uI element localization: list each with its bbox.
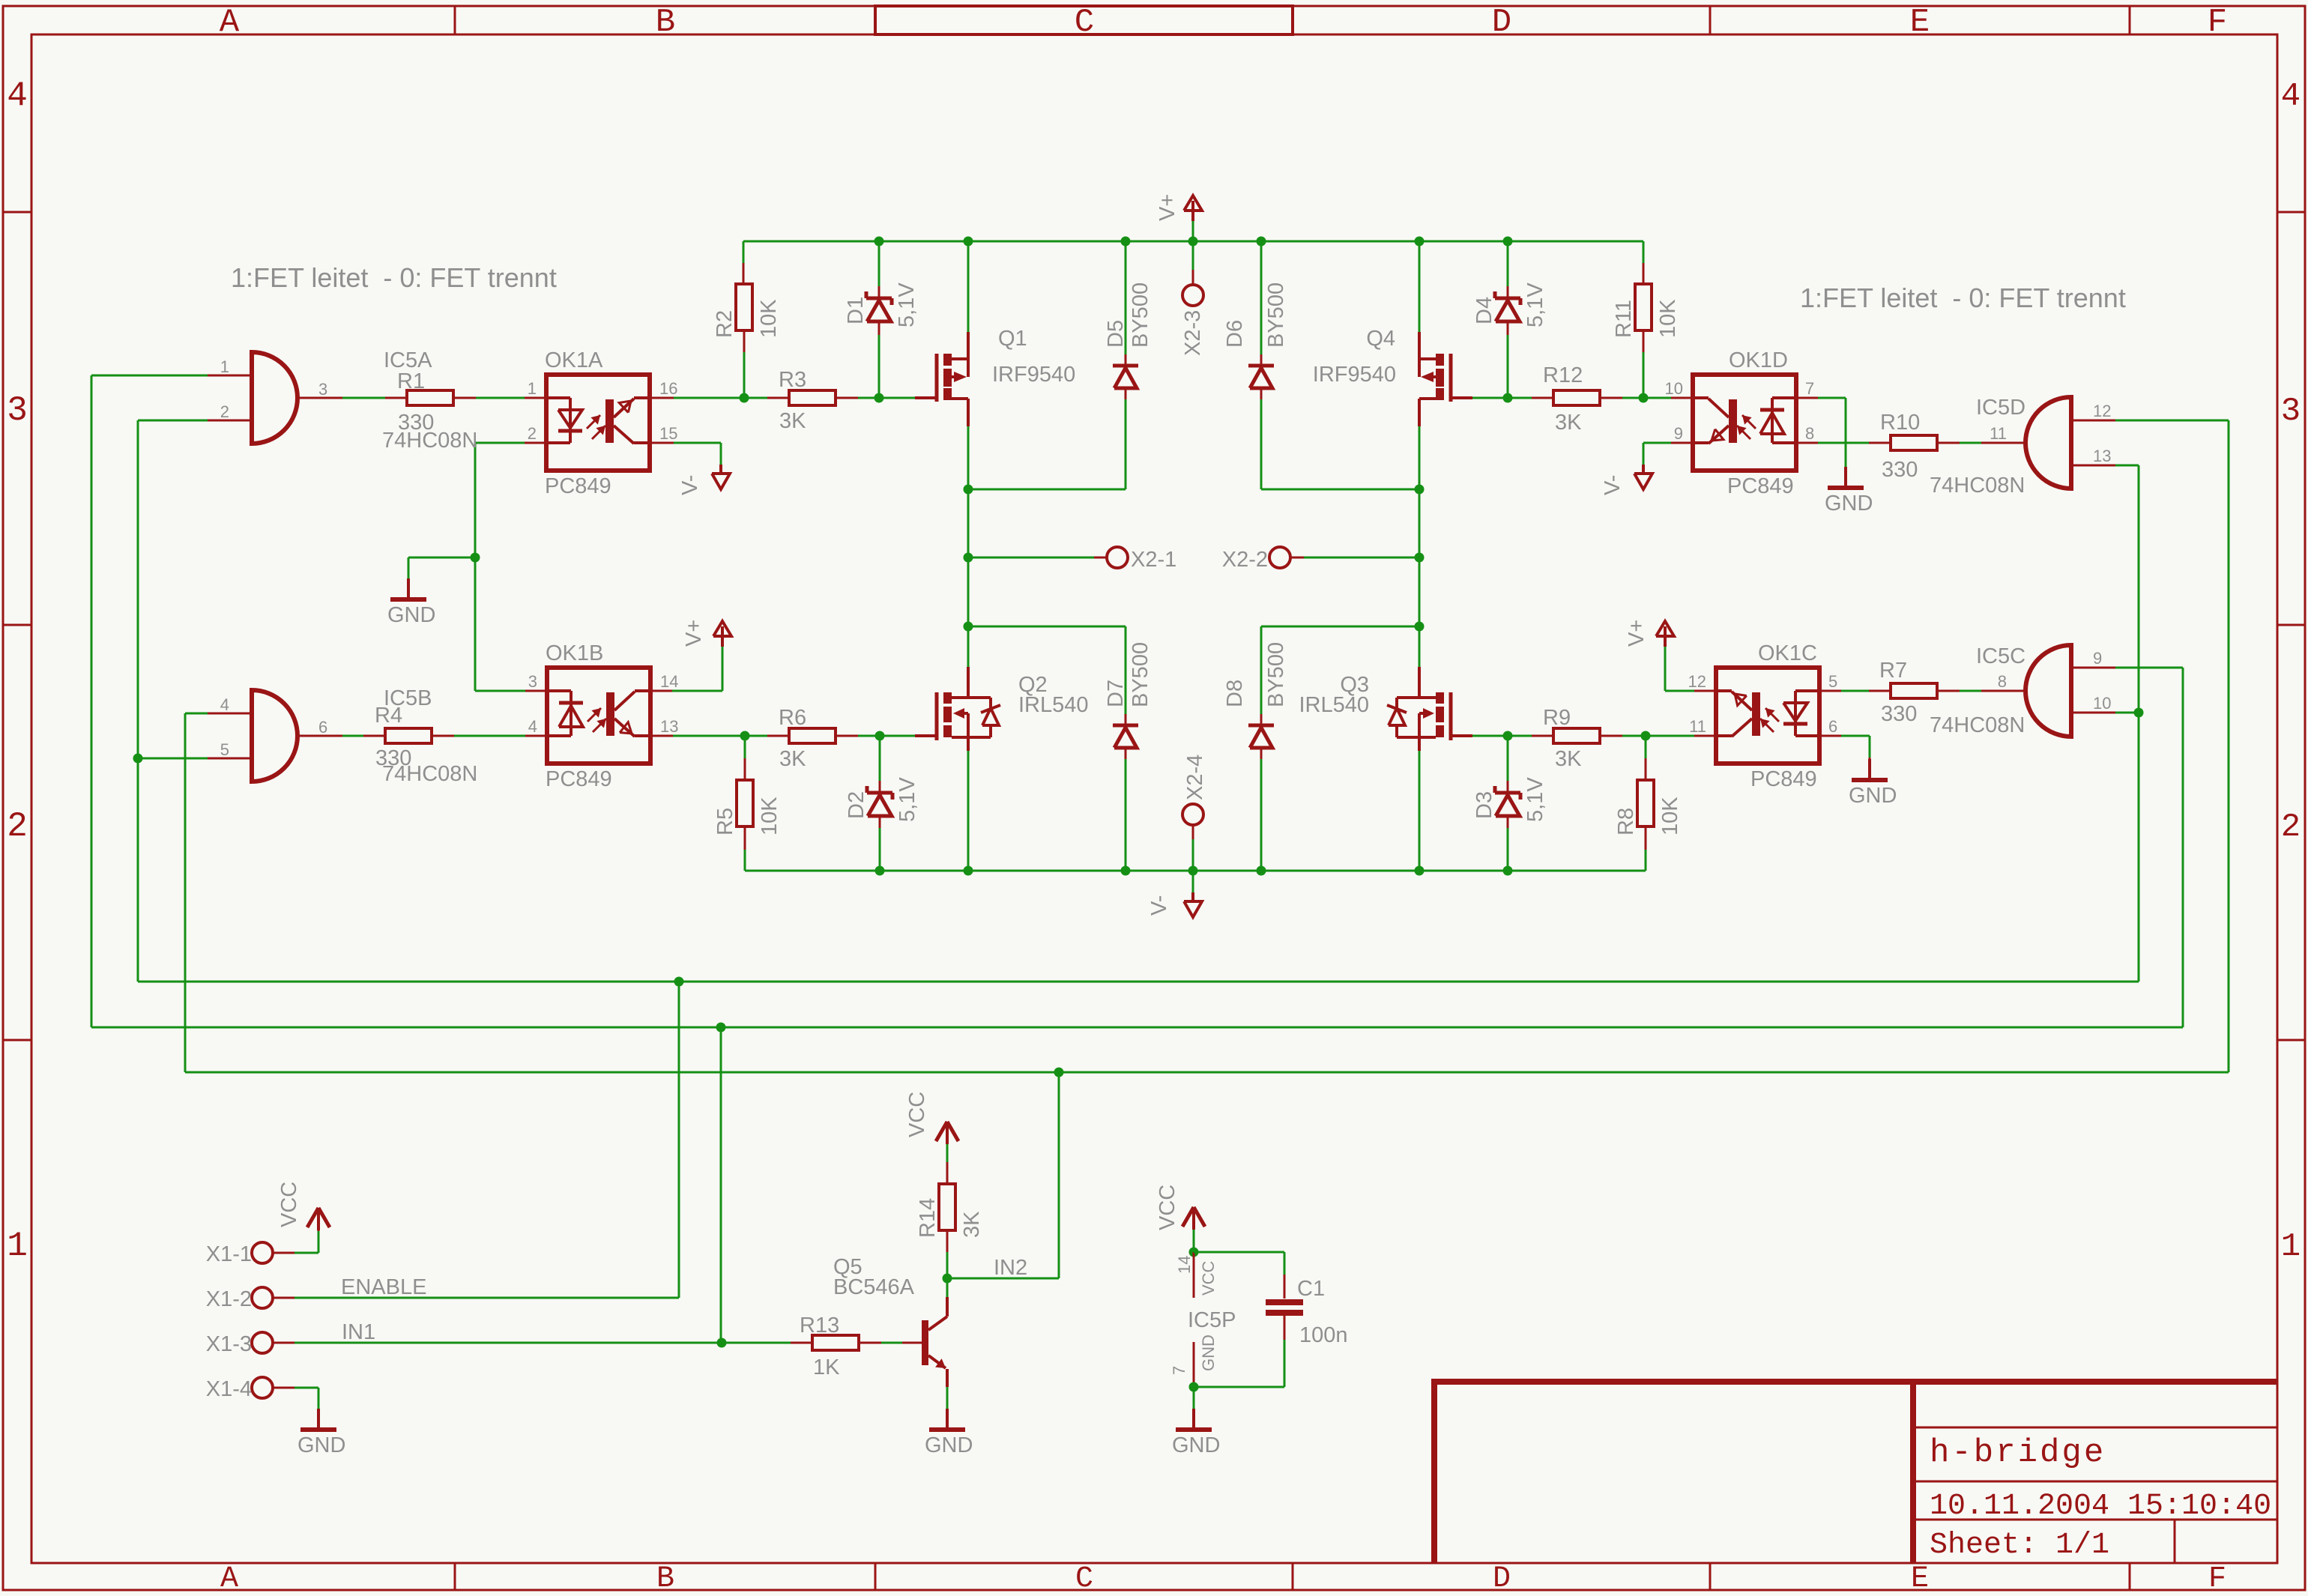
svg-text:100n: 100n [1299,1323,1348,1347]
svg-text:16: 16 [659,379,677,398]
svg-text:3K: 3K [1555,411,1582,435]
svg-text:OK1B: OK1B [546,641,603,665]
svg-text:OK1D: OK1D [1729,348,1788,372]
svg-text:330: 330 [375,746,411,770]
svg-text:PC849: PC849 [1750,767,1817,791]
svg-text:IC5C: IC5C [1976,644,2025,668]
svg-text:GND: GND [387,603,435,627]
svg-text:Sheet: 1/1: Sheet: 1/1 [1930,1529,2109,1562]
svg-text:10: 10 [1665,379,1683,398]
svg-text:8: 8 [1998,672,2007,691]
svg-text:6: 6 [1828,717,1837,736]
svg-text:13: 13 [2093,447,2111,465]
svg-text:A: A [220,4,240,41]
svg-text:R11: R11 [1612,300,1636,338]
svg-text:R5: R5 [713,808,737,835]
svg-text:h-bridge: h-bridge [1930,1434,2106,1472]
svg-text:3: 3 [318,380,327,399]
svg-text:10K: 10K [758,797,782,835]
svg-text:1:FET leitet - 0: FET trennt: 1:FET leitet - 0: FET trennt [1800,282,2126,313]
svg-text:V-: V- [1147,895,1171,916]
svg-text:B: B [656,4,675,41]
svg-text:5,1V: 5,1V [1523,777,1547,822]
svg-text:R6: R6 [779,706,806,730]
svg-text:R7: R7 [1879,659,1907,683]
svg-text:1: 1 [528,379,537,398]
svg-text:X1-4: X1-4 [206,1377,252,1401]
svg-text:1: 1 [7,1227,28,1266]
svg-text:R14: R14 [916,1198,940,1238]
svg-text:PC849: PC849 [545,474,611,498]
svg-text:5: 5 [220,740,229,759]
svg-text:2: 2 [220,402,229,421]
svg-text:BY500: BY500 [1129,282,1153,348]
svg-text:4: 4 [220,695,229,714]
svg-text:D4: D4 [1472,297,1496,324]
svg-text:7: 7 [1805,379,1814,398]
svg-text:V+: V+ [1625,620,1649,647]
svg-text:R1: R1 [397,369,425,393]
svg-text:IRF9540: IRF9540 [1313,363,1396,387]
svg-text:D5: D5 [1104,320,1128,348]
svg-text:V+: V+ [682,620,706,647]
svg-text:5,1V: 5,1V [895,282,919,327]
svg-text:D1: D1 [844,297,868,324]
svg-text:4: 4 [7,76,28,115]
svg-text:V-: V- [678,475,702,495]
svg-text:6: 6 [318,718,327,737]
svg-text:X2-2: X2-2 [1222,548,1268,572]
svg-text:IRL540: IRL540 [1018,693,1089,717]
svg-text:R13: R13 [800,1314,839,1337]
svg-text:3K: 3K [1555,747,1582,771]
svg-text:IRF9540: IRF9540 [992,363,1075,387]
svg-text:9: 9 [2093,649,2102,668]
svg-text:PC849: PC849 [546,767,612,791]
svg-text:E: E [1911,1562,1929,1596]
svg-text:C: C [1075,1562,1093,1596]
svg-text:8: 8 [1805,424,1814,443]
svg-text:IC5P: IC5P [1188,1308,1236,1332]
svg-text:Q1: Q1 [998,327,1027,351]
svg-text:10K: 10K [757,299,781,338]
svg-text:R12: R12 [1543,363,1583,387]
svg-text:X1-2: X1-2 [206,1287,252,1311]
svg-text:GND: GND [1199,1334,1218,1371]
svg-text:X2-3: X2-3 [1181,310,1205,356]
svg-text:GND: GND [925,1433,973,1457]
svg-text:BY500: BY500 [1129,642,1153,707]
svg-text:3K: 3K [960,1211,984,1238]
svg-text:14: 14 [660,672,678,691]
svg-text:R4: R4 [375,704,402,728]
svg-text:D2: D2 [845,791,868,819]
svg-text:V+: V+ [1155,194,1179,221]
svg-text:VCC: VCC [277,1182,301,1227]
svg-text:5,1V: 5,1V [895,777,919,822]
svg-text:IRL540: IRL540 [1299,693,1369,717]
svg-text:BY500: BY500 [1264,642,1288,707]
svg-text:330: 330 [398,411,434,435]
svg-text:R3: R3 [779,368,806,392]
svg-text:D: D [1492,4,1511,41]
svg-text:F: F [2208,1562,2226,1596]
svg-text:330: 330 [1882,458,1918,482]
svg-text:1: 1 [2281,1228,2301,1266]
svg-text:9: 9 [1674,424,1683,443]
svg-text:11: 11 [1689,717,1706,736]
svg-text:2: 2 [2281,808,2301,846]
svg-text:OK1A: OK1A [545,348,603,372]
svg-text:2: 2 [528,424,537,443]
svg-text:3: 3 [7,391,28,430]
svg-text:Q4: Q4 [1366,327,1395,351]
svg-text:D8: D8 [1223,680,1247,707]
svg-text:GND: GND [297,1433,345,1457]
svg-text:10K: 10K [1658,797,1682,835]
svg-text:C1: C1 [1297,1277,1325,1301]
svg-text:5: 5 [1828,672,1837,691]
svg-text:1K: 1K [813,1355,840,1379]
svg-text:D: D [1493,1562,1511,1596]
svg-text:2: 2 [7,807,28,846]
svg-text:D6: D6 [1223,320,1247,348]
svg-text:IN2: IN2 [994,1256,1027,1280]
svg-text:F: F [2208,4,2227,41]
svg-text:VCC: VCC [1199,1260,1218,1296]
svg-text:4: 4 [528,717,537,736]
svg-text:3K: 3K [779,409,806,433]
svg-text:IN1: IN1 [342,1320,375,1344]
svg-text:D7: D7 [1104,680,1128,707]
svg-text:10: 10 [2093,694,2111,713]
svg-text:74HC08N: 74HC08N [1930,474,2025,498]
svg-text:330: 330 [1881,702,1917,726]
svg-text:5,1V: 5,1V [1523,282,1547,327]
svg-text:X1-1: X1-1 [206,1242,252,1266]
svg-text:A: A [220,1562,238,1596]
svg-text:10.11.2004 15:10:40: 10.11.2004 15:10:40 [1930,1490,2271,1523]
svg-text:PC849: PC849 [1727,474,1794,498]
svg-text:4: 4 [2281,78,2301,115]
svg-text:74HC08N: 74HC08N [1930,713,2025,737]
svg-text:1: 1 [220,357,229,376]
svg-text:R10: R10 [1880,411,1920,435]
svg-text:V-: V- [1601,475,1625,495]
svg-text:C: C [1075,4,1094,41]
svg-text:GND: GND [1825,492,1873,516]
svg-text:X2-4: X2-4 [1183,755,1207,800]
svg-text:11: 11 [1990,424,2007,443]
svg-text:R2: R2 [713,310,737,338]
svg-text:BC546A: BC546A [833,1275,915,1299]
svg-text:12: 12 [1688,672,1706,691]
svg-text:BY500: BY500 [1264,282,1288,348]
svg-text:3: 3 [528,672,537,691]
svg-text:15: 15 [659,424,677,443]
svg-text:10K: 10K [1656,299,1680,338]
svg-text:VCC: VCC [905,1092,929,1137]
svg-text:R9: R9 [1543,706,1571,730]
svg-text:B: B [656,1562,674,1596]
svg-text:ENABLE: ENABLE [341,1275,426,1299]
svg-text:OK1C: OK1C [1758,641,1817,665]
svg-text:E: E [1910,4,1930,41]
svg-text:14: 14 [1175,1256,1194,1274]
svg-text:12: 12 [2093,402,2111,420]
svg-text:IC5D: IC5D [1976,396,2025,420]
svg-text:1:FET leitet - 0: FET trennt: 1:FET leitet - 0: FET trennt [231,262,557,293]
svg-text:R8: R8 [1614,808,1638,835]
svg-text:VCC: VCC [1155,1185,1179,1230]
svg-text:13: 13 [660,717,678,736]
svg-text:3K: 3K [779,747,806,771]
svg-text:X1-3: X1-3 [206,1332,252,1356]
svg-text:D3: D3 [1472,791,1496,819]
svg-text:7: 7 [1170,1366,1188,1375]
svg-text:X2-1: X2-1 [1131,548,1176,572]
svg-text:GND: GND [1849,784,1897,808]
svg-text:GND: GND [1172,1433,1220,1457]
svg-text:3: 3 [2281,393,2301,430]
